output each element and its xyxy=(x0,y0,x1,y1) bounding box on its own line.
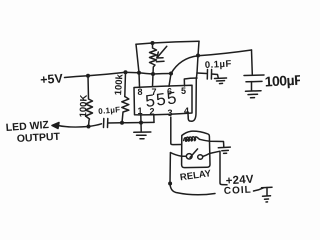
pin 1 stub xyxy=(140,115,142,123)
relay contact left xyxy=(186,154,192,159)
ground GND1 bar 3 xyxy=(140,138,144,140)
ground GND4 top bar xyxy=(262,186,273,189)
ground GND3 bar 1 xyxy=(246,90,262,93)
junction node at R1 bottom xyxy=(87,125,91,129)
wire pin 3 to relay coil xyxy=(171,117,182,145)
wire C2 to ground xyxy=(212,74,219,78)
op IC U1 555 body xyxy=(134,85,192,115)
junction node at C1/R2 xyxy=(120,121,124,125)
junction node on +5V rail at pin 7 xyxy=(151,72,155,76)
capacitor C3 stem to ground xyxy=(251,82,253,91)
ground GND2 bar 2 xyxy=(217,80,225,82)
wire relay coil to ground xyxy=(200,139,224,147)
svg-text:100K: 100K xyxy=(78,94,90,117)
potentiometer VR1 wiper tick xyxy=(157,60,165,63)
junction node curve crossing xyxy=(196,54,200,58)
pin 5 stub wire xyxy=(184,78,197,86)
ground GND-coil bar 3 xyxy=(224,152,227,154)
svg-text:+5V: +5V xyxy=(40,71,64,87)
pin 6 stub wire xyxy=(169,74,171,87)
junction node on +5V rail at R2 xyxy=(124,70,128,74)
svg-text:5: 5 xyxy=(181,86,186,96)
wire to capacitor C2 xyxy=(197,72,207,75)
resistor R2 100k lead from +5V rail xyxy=(124,72,127,96)
pin 2 stub xyxy=(153,115,155,123)
ground GND4 stem xyxy=(266,188,268,196)
relay K1 body xyxy=(182,131,210,167)
relay K1 coil xyxy=(184,137,200,141)
junction node on +5V rail at pin 8 xyxy=(137,71,141,75)
svg-text:OUTPUT: OUTPUT xyxy=(17,131,61,145)
junction node on +5V rail at R1 xyxy=(86,74,90,78)
pin 8 stub wire xyxy=(138,73,141,87)
capacitor C2 0.1uF right plate xyxy=(210,70,212,80)
potentiometer VR1 arrow head xyxy=(157,52,163,58)
resistor R1 100K body xyxy=(86,76,93,127)
resistor R2 100k body xyxy=(122,97,129,123)
ground GND1 under IC stem xyxy=(140,123,142,132)
svg-text:6: 6 xyxy=(167,87,172,97)
wire LED WIZ output line xyxy=(58,124,102,127)
potentiometer VR1 body xyxy=(150,43,157,74)
ground GND1 bar 1 xyxy=(134,131,151,133)
svg-text:0.1µF: 0.1µF xyxy=(98,105,121,116)
svg-text:0.1µF: 0.1µF xyxy=(205,59,233,71)
ground GND2 bar 1 xyxy=(215,77,227,80)
junction node pot top xyxy=(151,41,155,45)
capacitor C1 0.1uF left plate xyxy=(103,119,105,128)
pin 4 stub xyxy=(187,114,189,117)
wire left vertical of pot loop xyxy=(136,44,139,73)
ground GND-coil bar 2 xyxy=(222,149,229,151)
svg-text:2: 2 xyxy=(150,107,155,117)
svg-text:100k: 100k xyxy=(113,73,125,96)
junction node on bottom loop xyxy=(168,182,172,186)
relay contact right xyxy=(198,155,203,159)
ground GND-coil bar 1 xyxy=(218,146,230,149)
capacitor C3 100uF bottom plate xyxy=(246,80,262,82)
svg-text:7: 7 xyxy=(152,87,157,97)
wire switch left to bottom loop xyxy=(170,153,215,195)
relay switch blade xyxy=(190,149,198,158)
wire switch right to +24V xyxy=(203,151,227,185)
svg-text:100µF: 100µF xyxy=(264,72,300,90)
ground GND2 bar 3 xyxy=(220,82,223,84)
ground GND4 bar 2 xyxy=(263,195,271,197)
wire right vertical from top rail to pin4 hook xyxy=(188,41,199,121)
ground GND3 bar 3 xyxy=(251,97,255,99)
wire +5V rail xyxy=(65,72,172,77)
svg-text:COIL: COIL xyxy=(224,185,252,197)
wire bottom loop right segment to ground xyxy=(254,188,264,191)
svg-text:1: 1 xyxy=(138,106,143,116)
capacitor C3 100uF top plate xyxy=(244,74,264,77)
svg-text:8: 8 xyxy=(138,87,143,97)
potentiometer VR1 wiper arrow xyxy=(157,46,167,57)
wire pin6 node to 100uF xyxy=(171,50,252,74)
ground GND4 bar 3 xyxy=(265,198,269,200)
ground GND3 bar 2 xyxy=(248,93,258,95)
capacitor C2 0.1uF left plate xyxy=(206,70,208,80)
wire down to capacitor C3 xyxy=(251,50,254,75)
svg-text:3: 3 xyxy=(168,108,173,118)
capacitor C1 0.1uF right plate xyxy=(107,119,109,128)
pin 7 stub wire xyxy=(152,74,155,87)
ground GND4 dot xyxy=(266,201,268,203)
wire C1 to pin2 net xyxy=(108,121,154,124)
wire top rail of pot loop xyxy=(136,41,199,44)
junction node on +5V rail at pin 6 xyxy=(169,72,173,76)
junction node at pin1/ground xyxy=(139,121,143,125)
ground GND1 bar 2 xyxy=(137,134,147,136)
arrow head on LED WIZ output wire xyxy=(52,123,59,129)
